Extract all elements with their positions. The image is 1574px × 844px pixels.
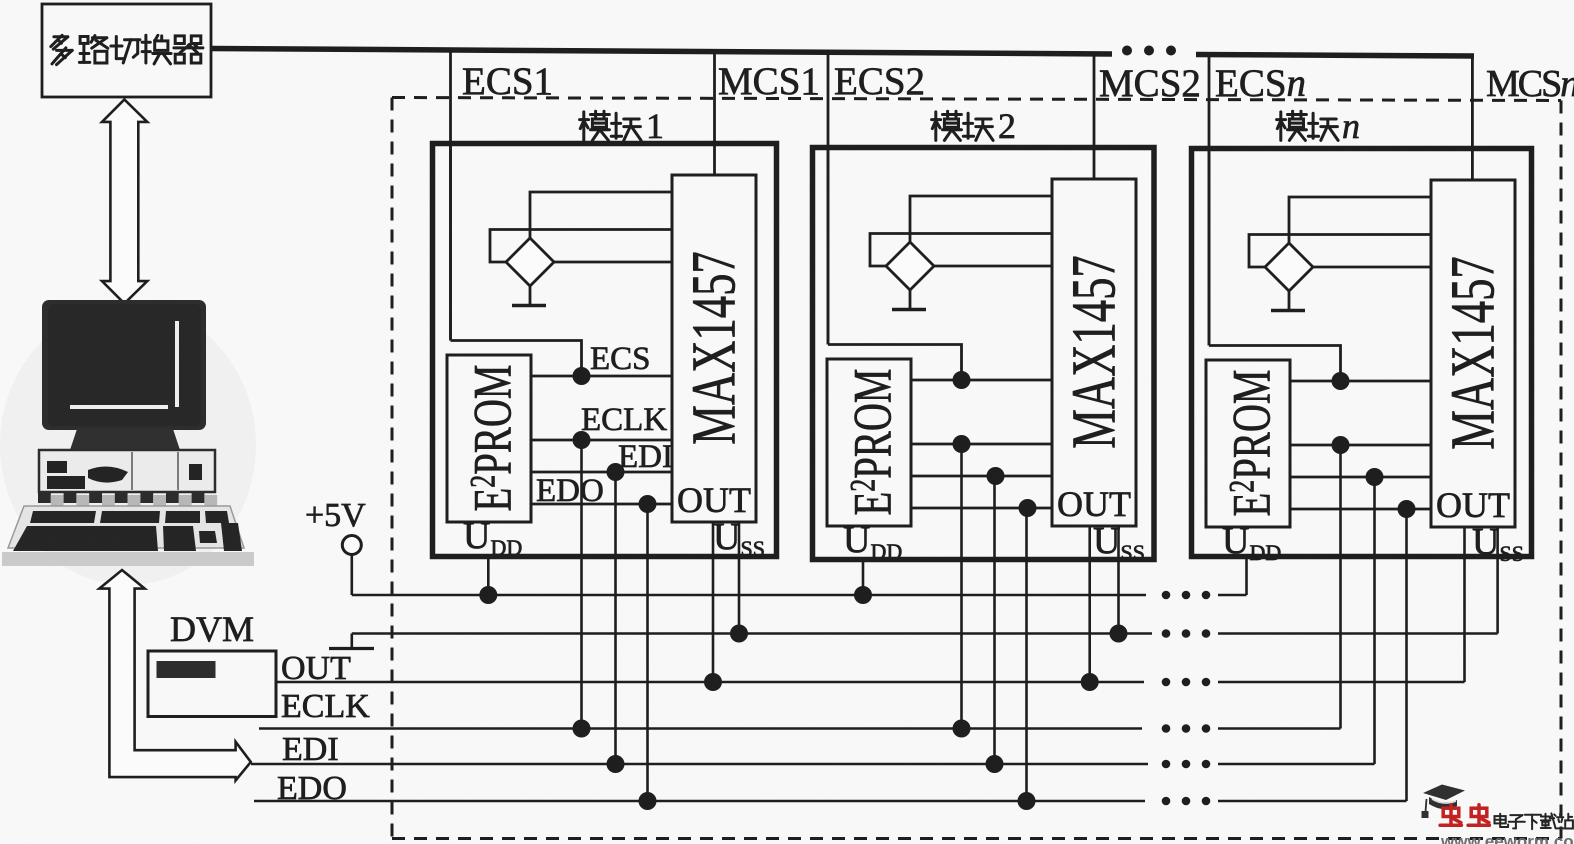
wire ECLK bus left segment	[259, 727, 1142, 730]
junction dot EDI (模块1)	[607, 463, 625, 481]
wire MCSn drop	[1471, 55, 1474, 181]
wire ECS line E2PROM-MAX (模块2)	[911, 379, 1052, 382]
instrument DVM box	[148, 651, 276, 717]
bus continuation dots (top)	[1122, 46, 1176, 56]
scan halo behind computer	[0, 305, 256, 585]
wire EDO line E2PROM-MAX (模块1)	[531, 503, 672, 506]
wire +5V terminal to bus	[350, 555, 353, 596]
wire: thick bus right segment	[1196, 55, 1474, 57]
wire EDO line E2PROM-MAX (模块n)	[1290, 508, 1431, 511]
wire OUT pin module2	[1088, 526, 1091, 682]
wire bridge left bracket to MAX (模块2)	[870, 234, 1052, 267]
wire bridge right to MAX (模块n)	[1313, 266, 1431, 269]
dashed boundary bottom edge	[392, 837, 1561, 840]
module box 模块1	[433, 144, 777, 557]
junction dot ECLK (模块n)	[1332, 436, 1350, 454]
wire ECS line E2PROM-MAX (模块n)	[1290, 380, 1431, 383]
IC E2PROM (模块1)	[447, 355, 531, 522]
dashed boundary right edge	[1560, 101, 1563, 839]
wire bridge top to MAX (模块1)	[530, 192, 672, 238]
wire ECS entry (模块2)	[828, 345, 962, 381]
junction dot OUT module2	[1081, 673, 1099, 691]
junction dot USS module1	[730, 625, 748, 643]
wire +5V (UDD) bus left segment	[352, 594, 1146, 597]
wire ECS2 drop	[827, 52, 830, 345]
wire bridge right to MAX (模块1)	[554, 261, 672, 264]
junction dot ECLK (模块1)	[573, 431, 591, 449]
junction dot USS module2	[1110, 625, 1128, 643]
wire bridge top to MAX (模块2)	[910, 196, 1052, 242]
bidirectional arrow multiplexer-computer	[102, 100, 147, 304]
wire USS bus left segment	[352, 632, 1152, 635]
wire bridge left bracket to MAX (模块1)	[490, 230, 672, 263]
wire ECS entry vertical (模块2)	[827, 145, 830, 345]
wire OUT pin module n	[1463, 527, 1466, 682]
wire USS pin module2	[1117, 526, 1120, 634]
wire ECLK line E2PROM-MAX (模块1)	[531, 439, 672, 442]
wire OUT bus left segment	[276, 681, 1144, 684]
wire EDI line E2PROM-MAX (模块2)	[911, 475, 1052, 478]
wire MCS2 drop	[1093, 54, 1096, 180]
wire ECLK drop module2	[960, 444, 963, 729]
module box 模块n	[1192, 149, 1532, 557]
wire EDO line E2PROM-MAX (模块2)	[911, 507, 1052, 510]
watermark 电子下载站	[1495, 814, 1509, 827]
wire ECLK bus right segment	[1218, 727, 1341, 730]
wire UDD pin module1	[487, 556, 490, 595]
multiplexer label 多路切换器	[51, 35, 72, 64]
computer (host PC)	[2, 300, 254, 566]
wire EDO drop module1	[646, 504, 649, 801]
wire EDI line E2PROM-MAX (模块1)	[531, 471, 672, 474]
junction dot UDD module1	[479, 586, 497, 604]
wire bridge to ground (模块n)	[1288, 291, 1291, 311]
module label 模块1	[580, 106, 664, 146]
wire OUT bus right segment	[1218, 681, 1465, 684]
IC MAX1457 (模块2)	[1052, 179, 1136, 526]
ground symbol (模块2)	[892, 308, 926, 311]
wire ECLK line E2PROM-MAX (模块2)	[911, 443, 1052, 446]
multiplexer box (多路切换器)	[42, 4, 211, 97]
wire ECLK drop module n	[1339, 445, 1342, 729]
wire ECLK line E2PROM-MAX (模块n)	[1290, 444, 1431, 447]
wire EDO bus right segment	[1218, 800, 1407, 803]
wire EDI drop module n	[1373, 477, 1376, 764]
IC MAX1457 (模块n)	[1431, 180, 1515, 527]
wire USS bus right segment	[1218, 632, 1498, 635]
wire USS pin module1	[738, 522, 741, 634]
dashed boundary top edge	[392, 98, 1561, 101]
wire bridge left bracket to MAX (模块n)	[1249, 235, 1431, 268]
junction dot EDO (模块1)	[639, 495, 657, 513]
bus continuation dots (USS)	[1162, 629, 1211, 638]
wire bridge top to MAX (模块n)	[1289, 197, 1431, 243]
bridge sensor (模块1)	[506, 238, 554, 286]
junction dot OUT module1	[704, 673, 722, 691]
bus continuation dots (EDO)	[1162, 797, 1211, 806]
wire USS pin module n	[1496, 527, 1499, 634]
wire EDI drop module2	[993, 476, 996, 764]
wire EDO bus left segment	[254, 800, 1145, 803]
wire EDI line E2PROM-MAX (模块n)	[1290, 476, 1431, 479]
junction dot EDO module1	[639, 792, 657, 810]
junction dot EDO module2	[1018, 792, 1036, 810]
watermark graduation cap	[1422, 785, 1466, 819]
wire UDD pin module n	[1245, 556, 1248, 595]
wire EDO drop module2	[1025, 508, 1028, 801]
junction dot ECLK module2	[953, 720, 971, 738]
wire +5V (UDD) bus right segment	[1218, 594, 1247, 597]
wire ECS entry vertical (模块1)	[449, 141, 452, 341]
IC MAX1457 (模块1)	[672, 175, 756, 522]
bus continuation dots (OUT)	[1162, 678, 1211, 687]
junction dot EDO (模块n)	[1398, 500, 1416, 518]
wire ECS line E2PROM-MAX (模块1)	[531, 375, 672, 378]
bridge sensor (模块2)	[886, 242, 934, 290]
junction dot EDI module2	[986, 755, 1004, 773]
ground symbol (模块1)	[512, 304, 546, 307]
bridge sensor (模块n)	[1265, 243, 1313, 291]
wire USS bus to ground	[350, 634, 353, 649]
wire MCS1 drop	[713, 52, 716, 177]
bus continuation dots (+5V (UDD))	[1162, 591, 1211, 600]
watermark 虫虫 (red)	[1440, 805, 1461, 826]
power terminal +5V circle	[342, 536, 361, 555]
module label 模块2	[932, 106, 1016, 146]
wire OUT pin module1	[712, 522, 715, 682]
wire bridge to ground (模块1)	[529, 286, 532, 306]
junction dot UDD module2	[854, 586, 872, 604]
junction dot EDI module1	[607, 755, 625, 773]
wire: thick parallel bus from multiplexer	[211, 49, 1112, 55]
wire bridge to ground (模块2)	[909, 290, 912, 310]
wire ECS1 drop	[449, 50, 452, 341]
IC E2PROM (模块n)	[1206, 360, 1290, 527]
wire EDO drop module n	[1405, 509, 1408, 801]
ground symbol (USS bus)	[329, 647, 374, 650]
junction dot ECS (模块n)	[1332, 372, 1350, 390]
wire ECSn drop	[1208, 55, 1211, 346]
wire EDI drop module1	[614, 472, 617, 764]
wire ECLK drop module1	[580, 440, 583, 729]
bus continuation dots (EDI)	[1162, 760, 1211, 769]
junction dot EDI (模块n)	[1366, 468, 1384, 486]
ground symbol (模块n)	[1271, 309, 1305, 312]
IC E2PROM (模块2)	[827, 359, 911, 526]
DVM display window	[157, 661, 216, 678]
junction dot ECLK module1	[573, 720, 591, 738]
junction dot ECS (模块1)	[573, 367, 591, 385]
wire ECS entry (模块1)	[451, 341, 582, 377]
wire EDI bus right segment	[1218, 763, 1375, 766]
dashed boundary left edge	[391, 98, 394, 839]
wire ECS entry (模块n)	[1209, 346, 1341, 382]
module label 模块n	[1277, 106, 1360, 146]
wire UDD pin module2	[862, 559, 865, 595]
junction dot ECLK (模块2)	[953, 435, 971, 453]
wire ECS entry vertical (模块n)	[1208, 146, 1211, 346]
bidirectional arrow computer-EDI/EDO bus	[99, 570, 251, 781]
junction dot EDI (模块2)	[987, 467, 1005, 485]
wire bridge right to MAX (模块2)	[934, 265, 1052, 268]
wire EDI bus left segment	[251, 763, 1148, 766]
junction dot ECS (模块2)	[953, 371, 971, 389]
bus continuation dots (ECLK)	[1162, 724, 1211, 733]
junction dot EDO (模块2)	[1019, 499, 1037, 517]
module box 模块2	[813, 148, 1155, 560]
